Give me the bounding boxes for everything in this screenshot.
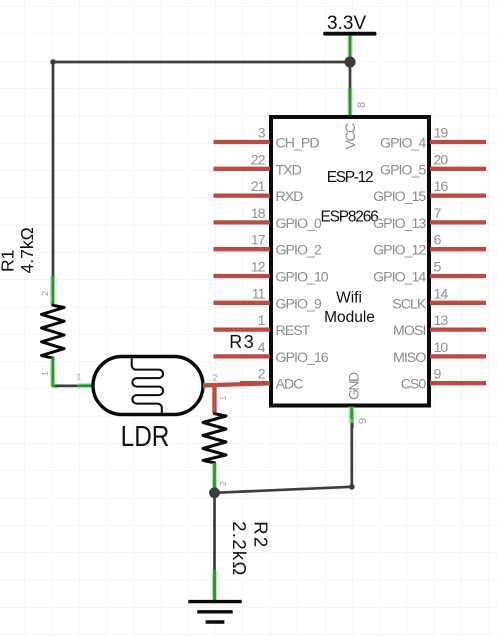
svg-text:GPIO_0: GPIO_0 <box>276 216 322 232</box>
svg-text:ESP8266: ESP8266 <box>320 209 378 226</box>
pin 18 GPIO_0 <box>214 206 322 232</box>
pin 22 TXD <box>214 152 302 178</box>
svg-text:19: 19 <box>434 126 449 142</box>
pin 11 GPIO_9 <box>214 286 322 312</box>
svg-text:22: 22 <box>251 152 266 168</box>
svg-text:5: 5 <box>434 260 442 276</box>
pin 8 VCC green stub <box>350 88 368 118</box>
svg-text:GPIO_2: GPIO_2 <box>276 243 322 259</box>
svg-text:7: 7 <box>434 206 442 222</box>
pin 5 GPIO_14 <box>373 260 486 286</box>
wire junction to ground <box>213 493 216 600</box>
svg-text:17: 17 <box>251 233 266 249</box>
pin 4 GPIO_16 <box>214 340 329 366</box>
pin 16 GPIO_15 <box>373 179 486 205</box>
wire R1 to LDR <box>52 372 94 386</box>
svg-text:9: 9 <box>434 367 442 383</box>
svg-text:6: 6 <box>434 233 442 249</box>
svg-text:REST: REST <box>276 323 311 339</box>
svg-text:GND: GND <box>346 372 362 400</box>
pin 20 GPIO_5 <box>380 152 486 178</box>
wire R2 to GND pin <box>215 415 355 493</box>
svg-text:1: 1 <box>218 396 228 401</box>
svg-text:GPIO_4: GPIO_4 <box>380 136 426 152</box>
right pins group <box>373 126 486 393</box>
svg-text:R2: R2 <box>250 521 271 549</box>
svg-text:9: 9 <box>357 418 369 424</box>
svg-text:10: 10 <box>434 340 449 356</box>
svg-text:2: 2 <box>218 481 228 486</box>
wire junction to VCC pin <box>349 62 352 100</box>
svg-text:20: 20 <box>434 152 449 168</box>
svg-text:4: 4 <box>258 340 266 356</box>
svg-text:2.2kΩ: 2.2kΩ <box>229 521 250 576</box>
svg-text:TXD: TXD <box>276 162 302 178</box>
corner dot <box>50 59 56 65</box>
wire junction to R1 (top horizontal + left vertical) <box>53 62 350 276</box>
photoresistor LDR (R3) <box>93 332 255 452</box>
power 3.3V <box>323 13 376 36</box>
svg-text:GPIO_12: GPIO_12 <box>373 243 426 259</box>
pin 14 SCLK <box>392 286 486 312</box>
svg-text:12: 12 <box>251 260 266 276</box>
svg-text:GPIO_15: GPIO_15 <box>373 189 426 205</box>
svg-text:4.7kΩ: 4.7kΩ <box>17 227 37 273</box>
resistor R1 4.7kΩ <box>0 227 64 386</box>
svg-text:SCLK: SCLK <box>392 296 427 312</box>
svg-text:LDR: LDR <box>121 420 170 452</box>
resistor R2 2.2kΩ <box>203 384 271 576</box>
svg-text:11: 11 <box>252 286 266 302</box>
pin 9 GND green stub <box>351 407 369 429</box>
svg-text:16: 16 <box>434 179 449 195</box>
svg-text:1: 1 <box>77 372 82 382</box>
left pins group <box>214 126 329 393</box>
svg-text:MOSI: MOSI <box>393 323 425 339</box>
svg-text:2: 2 <box>40 291 50 296</box>
svg-text:3: 3 <box>258 126 266 142</box>
svg-text:VCC: VCC <box>342 123 358 149</box>
svg-text:MISO: MISO <box>393 350 426 366</box>
svg-text:Wifi: Wifi <box>336 290 362 307</box>
svg-text:R1: R1 <box>0 250 17 272</box>
svg-text:21: 21 <box>251 179 266 195</box>
pin 19 GPIO_4 <box>380 126 486 152</box>
svg-text:GPIO_16: GPIO_16 <box>276 350 329 366</box>
pin 6 GPIO_12 <box>373 233 486 259</box>
wire LDR to ADC (red) <box>203 373 270 386</box>
wire 3.3V bar to junction (green) <box>348 36 353 58</box>
svg-text:18: 18 <box>251 206 266 222</box>
svg-text:8: 8 <box>356 102 368 108</box>
svg-text:1: 1 <box>40 371 50 376</box>
svg-text:1: 1 <box>258 313 266 329</box>
pin 7 GPIO_13 <box>373 206 486 232</box>
svg-text:2: 2 <box>258 367 266 383</box>
pin 2 ADC <box>240 367 303 393</box>
svg-text:ESP-12: ESP-12 <box>327 169 373 186</box>
pin 12 GPIO_10 <box>214 260 329 286</box>
svg-text:Module: Module <box>324 309 375 326</box>
svg-text:RXD: RXD <box>276 189 304 205</box>
svg-text:R3: R3 <box>229 332 255 352</box>
svg-text:CS0: CS0 <box>401 377 427 393</box>
pin 10 MISO <box>393 340 486 366</box>
pin 1 REST <box>214 313 311 339</box>
pin 13 MOSI <box>393 313 486 339</box>
svg-text:ADC: ADC <box>276 377 304 393</box>
junction node at 3.3V <box>344 56 355 67</box>
svg-text:13: 13 <box>434 313 449 329</box>
svg-text:GPIO_13: GPIO_13 <box>373 216 426 232</box>
svg-text:CH_PD: CH_PD <box>276 136 320 152</box>
svg-text:GPIO_14: GPIO_14 <box>373 270 426 286</box>
svg-text:2: 2 <box>213 373 218 383</box>
svg-text:GPIO_10: GPIO_10 <box>276 270 329 286</box>
ground symbol <box>188 602 241 622</box>
pin 21 RXD <box>214 179 304 205</box>
svg-text:GPIO_9: GPIO_9 <box>276 296 322 312</box>
pin 9 CS0 <box>401 367 486 393</box>
junction node at R2 bottom <box>209 487 220 498</box>
pin 3 CH_PD <box>214 126 320 152</box>
pin 17 GPIO_2 <box>214 233 322 259</box>
svg-text:14: 14 <box>434 286 449 302</box>
IC U1 ESP-12 / ESP8266 module body <box>271 117 429 406</box>
svg-text:GPIO_5: GPIO_5 <box>380 162 426 178</box>
svg-text:3.3V: 3.3V <box>327 13 366 34</box>
